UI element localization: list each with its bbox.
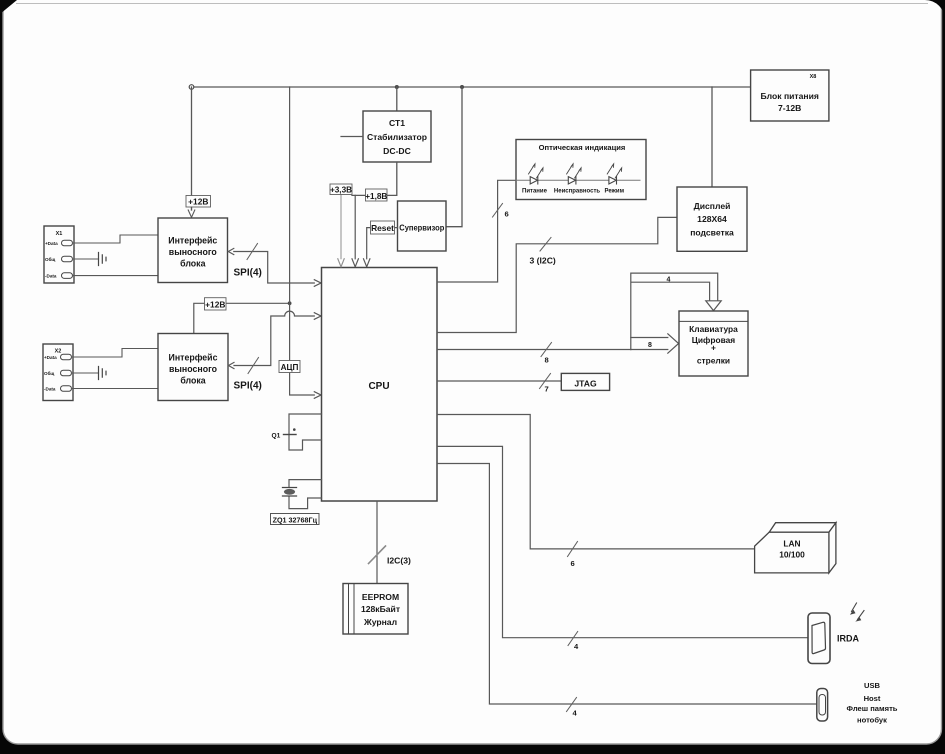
svg-text:+3,3В: +3,3В [330, 186, 352, 195]
svg-text:блока: блока [180, 376, 205, 386]
junction dot at CT1 tap [395, 85, 399, 89]
wire CT1 top feed [396, 87, 398, 111]
wire supervisor supply from bus [446, 87, 462, 227]
svg-text:Интерфейс: Интерфейс [168, 236, 217, 246]
crystal Q1 symbol [284, 434, 297, 436]
LAN connector 3D box [755, 523, 836, 573]
svg-text:Питание: Питание [522, 189, 548, 195]
wire +12V branch to interface 2 [194, 303, 290, 333]
ground symbol 2 [99, 367, 107, 380]
svg-text:выносного: выносного [169, 364, 218, 374]
wire CPU I2C to display [437, 217, 677, 332]
svg-text:JTAG: JTAG [574, 378, 597, 388]
optical indication block [516, 140, 646, 200]
crystal Q1 circuit [289, 414, 322, 450]
wire X2 +Data to interface 2 [72, 349, 159, 358]
label +3.3V [330, 184, 352, 195]
interface block 1 [158, 218, 228, 283]
wire CPU to LAN [437, 415, 755, 549]
wire CPU to USB [437, 464, 817, 705]
svg-text:Режим: Режим [605, 189, 625, 195]
svg-text:LAN: LAN [783, 539, 800, 549]
slash SPI1 [247, 244, 258, 260]
label ADC [279, 361, 300, 373]
ground symbol 1 [99, 253, 107, 266]
label Reset [371, 221, 395, 234]
wire X1 -Data to interface 1 [73, 275, 159, 277]
wire CPU to JTAG [437, 380, 561, 382]
svg-text:Host: Host [864, 694, 881, 703]
slash JTAG [540, 374, 551, 389]
svg-text:Интерфейс: Интерфейс [169, 353, 218, 363]
svg-text:+Data: +Data [44, 355, 57, 360]
LED Rezhim [607, 164, 622, 184]
svg-text:Х8: Х8 [810, 74, 817, 80]
svg-text:Блок питания: Блок питания [760, 91, 818, 101]
slash keyboard [541, 343, 552, 357]
LED Neispravnost [567, 164, 582, 184]
svg-text:+: + [711, 343, 716, 353]
svg-text:CPU: CPU [368, 381, 389, 392]
wire +3.3V drop to CPU [338, 195, 344, 267]
svg-text:Стабилизатор: Стабилизатор [367, 132, 427, 142]
arrow into interface 1 top [188, 207, 195, 217]
svg-text:Клавиатура: Клавиатура [689, 324, 738, 334]
svg-text:128Х64: 128Х64 [697, 214, 727, 224]
svg-text:нотобук: нотобук [857, 716, 887, 725]
svg-text:4: 4 [667, 276, 671, 283]
svg-text:Журнал: Журнал [363, 617, 397, 627]
wire +12V top bus [192, 86, 751, 88]
svg-text:+Data: +Data [45, 241, 58, 246]
keyboard return loop (4 lines) [631, 273, 718, 349]
svg-text:-Data: -Data [45, 274, 57, 279]
node left end of +12V bus [189, 85, 194, 90]
svg-text:Неисправность: Неисправность [554, 189, 600, 195]
connector X2 [43, 344, 73, 401]
svg-text:подсветка: подсветка [690, 228, 734, 238]
svg-text:IRDA: IRDA [837, 634, 859, 644]
svg-text:+12В: +12В [188, 197, 208, 207]
JTAG block [561, 373, 609, 390]
svg-text:Флеш память: Флеш память [847, 704, 898, 713]
svg-text:I2C(3): I2C(3) [387, 556, 411, 566]
wire ADC net from bus to CPU [290, 87, 321, 398]
crystal ZQ1 symbol [283, 488, 297, 497]
slash SPI2 [248, 358, 259, 374]
svg-text:6: 6 [571, 559, 575, 568]
svg-text:7: 7 [545, 385, 549, 394]
label +1.8V [366, 189, 388, 201]
USB connector [817, 689, 828, 722]
IR rays [852, 603, 865, 620]
label +12V (2) [205, 298, 227, 310]
IRDA connector [808, 613, 830, 664]
display block [677, 187, 747, 251]
supervisor block [398, 201, 447, 251]
CPU block [322, 268, 438, 502]
wire SPI bus 2 to CPU with hop [229, 311, 322, 369]
svg-text:8: 8 [545, 356, 549, 365]
label ZQ1 32768Hz [271, 514, 320, 525]
power supply block X8 [751, 70, 829, 121]
slash USB [567, 698, 577, 712]
wire I2C(3) to EEPROM [376, 501, 378, 584]
svg-text:-Data: -Data [44, 387, 56, 392]
svg-text:3 (I2C): 3 (I2C) [530, 256, 556, 266]
svg-text:+12В: +12В [205, 300, 225, 310]
svg-text:6: 6 [505, 210, 509, 219]
svg-text:Общ: Общ [45, 256, 55, 262]
slash LED wire [493, 204, 503, 218]
svg-text:Х2: Х2 [55, 349, 62, 355]
wire SPI bus 1 to CPU [228, 248, 321, 286]
wire CT1 left stub [341, 136, 363, 138]
wire display backlight power [711, 87, 713, 187]
interface block 2 [158, 334, 228, 401]
svg-text:Оптическая индикация: Оптическая индикация [539, 143, 626, 152]
arrow 3.3V into CPU top [338, 259, 344, 267]
svg-text:128кБайт: 128кБайт [361, 604, 400, 614]
wire X2 -Data to interface 2 [72, 388, 159, 390]
EEPROM block [343, 584, 408, 635]
LED rail [516, 179, 640, 181]
svg-text:Супервизор: Супервизор [399, 223, 444, 233]
crystal ZQ1 (RTC) circuit [289, 480, 322, 509]
wire CT1 output down [352, 162, 397, 195]
svg-text:Reset: Reset [371, 223, 394, 233]
svg-text:SPI(4): SPI(4) [234, 381, 262, 392]
wire X1 +Data to interface 1 [73, 235, 159, 243]
slash LAN [568, 542, 578, 557]
svg-text:стрелки: стрелки [697, 356, 730, 366]
svg-text:7-12В: 7-12В [778, 103, 801, 113]
keyboard block [679, 311, 748, 376]
label +12V (1) [186, 196, 211, 208]
wire X1 common to ground [73, 258, 99, 260]
wire X2 common to ground [72, 372, 99, 374]
wire CPU to keyboard (8 lines) [437, 349, 631, 351]
voltage regulator CT1 [363, 111, 431, 162]
svg-text:SPI(4): SPI(4) [234, 268, 262, 279]
svg-text:Х1: Х1 [56, 231, 63, 237]
wire CPU to LED indication [437, 180, 516, 282]
wire CPU to IRDA [437, 446, 808, 637]
svg-text:8: 8 [648, 342, 652, 349]
wire +1.8V drop to CPU [352, 195, 358, 266]
connector X1 [44, 226, 74, 283]
svg-text:+1,8В: +1,8В [365, 192, 387, 201]
svg-text:Общ: Общ [44, 370, 54, 376]
svg-text:блока: блока [180, 259, 205, 269]
junction dot at supervisor tap [460, 85, 464, 89]
svg-text:СТ1: СТ1 [389, 118, 405, 128]
slash I2C(3) [369, 546, 386, 564]
svg-text:АЦП: АЦП [281, 363, 299, 372]
svg-text:Q1: Q1 [272, 433, 281, 440]
slash IRDA [568, 632, 578, 646]
svg-text:Дисплей: Дисплей [694, 201, 731, 211]
svg-text:DC-DC: DC-DC [383, 146, 411, 156]
wire +12V drop to interface block 1 [191, 87, 193, 210]
svg-text:выносного: выносного [169, 247, 218, 257]
wire Reset to CPU [364, 228, 398, 267]
svg-text:10/100: 10/100 [779, 550, 805, 560]
svg-text:EEPROM: EEPROM [362, 592, 399, 602]
slash display I2C [540, 238, 551, 252]
svg-text:USB: USB [864, 681, 881, 690]
LED Pitanie [529, 164, 544, 184]
keyboard bus double line and arrow [631, 334, 679, 353]
svg-text:ZQ1 32768Гц: ZQ1 32768Гц [273, 515, 318, 524]
